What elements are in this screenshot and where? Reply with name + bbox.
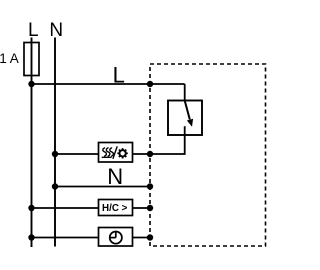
svg-text:L: L [28,20,39,41]
wire: row H/C horizontal [32,207,151,209]
timer box [99,228,133,247]
switch arrowhead [187,119,193,127]
junction: enclosure H/C terminal [147,205,153,211]
svg-text:N: N [49,20,63,41]
heating/cooling load box [99,143,133,163]
cooling icon (sun) [117,148,127,158]
junction: N line / N row [52,183,58,189]
svg-text:H/C >: H/C > [102,203,128,214]
junction: L line / H-C row [28,205,34,211]
junction: enclosure N terminal [147,183,153,189]
clock icon [110,232,122,244]
wire: row L horizontal (to switch) [32,83,185,85]
wire: row N horizontal [55,186,150,188]
slash separator [113,146,117,158]
svg-text:1 A: 1 A [0,51,19,66]
dashed enclosure (thermostat unit) [150,64,266,246]
wire: N supply vertical [54,38,56,247]
junction: L line / clock row [28,234,34,240]
junction: fuse output / row L [28,81,34,87]
svg-text:L: L [113,63,125,88]
svg-text:N: N [107,164,123,189]
fuse F1 [24,43,39,76]
switch bottom contact stub and return wire [150,126,185,154]
junction: enclosure L terminal [147,81,153,87]
heating icon (waves over line) [102,148,114,157]
wire: L supply vertical [31,38,33,248]
switch U1 (relay contact) box [168,101,202,136]
junction: N line / heat row [52,151,58,157]
junction: enclosure clock terminal [147,234,153,240]
junction: enclosure heat terminal [147,151,153,157]
switch contact arm (arrow) [185,101,190,120]
H/C changeover box [99,200,133,216]
wire: switch feed vertical [184,84,186,101]
wire: row clock horizontal [32,237,151,239]
wire: row heat/cool output horizontal [55,153,150,155]
